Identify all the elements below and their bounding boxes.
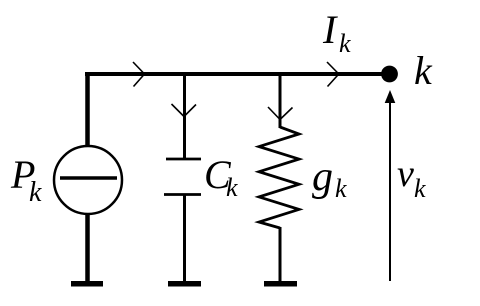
arrow down on capacitor branch xyxy=(172,104,197,117)
capacitor C_k xyxy=(164,159,201,195)
svg-text:k: k xyxy=(29,177,42,208)
wire left vertical from bus to source xyxy=(85,72,90,147)
svg-text:k: k xyxy=(226,173,238,202)
wire capacitor bottom lead xyxy=(183,195,186,283)
label g_k xyxy=(312,154,347,203)
wire source bottom lead xyxy=(85,214,90,282)
ground under resistor xyxy=(264,281,297,287)
svg-text:I: I xyxy=(322,7,338,52)
label C_k xyxy=(204,152,238,202)
label P_k xyxy=(10,152,42,208)
svg-text:g: g xyxy=(312,154,333,200)
arrow current arrow left on top bus xyxy=(133,62,145,87)
current source P_k circle xyxy=(54,146,122,214)
svg-text:v: v xyxy=(397,153,414,195)
svg-text:k: k xyxy=(339,29,351,58)
wire resistor bottom lead xyxy=(279,227,282,282)
svg-text:k: k xyxy=(414,48,433,93)
label I_k xyxy=(322,7,351,58)
wire top bus xyxy=(85,72,384,76)
wire resistor top lead xyxy=(279,74,282,128)
svg-text:k: k xyxy=(414,174,426,203)
label v_k xyxy=(397,153,426,203)
resistor g_k zigzag xyxy=(259,127,299,228)
ground under capacitor xyxy=(168,281,201,287)
node k dot xyxy=(381,66,398,83)
svg-text:k: k xyxy=(335,174,347,203)
wire v_k reference line xyxy=(389,101,391,281)
ground under source xyxy=(71,281,103,287)
arrow down on resistor branch xyxy=(268,107,293,120)
arrow v_k arrowhead xyxy=(385,90,396,103)
arrow current arrow right on top bus (I_k) xyxy=(327,62,339,87)
wire capacitor top lead xyxy=(183,74,186,158)
